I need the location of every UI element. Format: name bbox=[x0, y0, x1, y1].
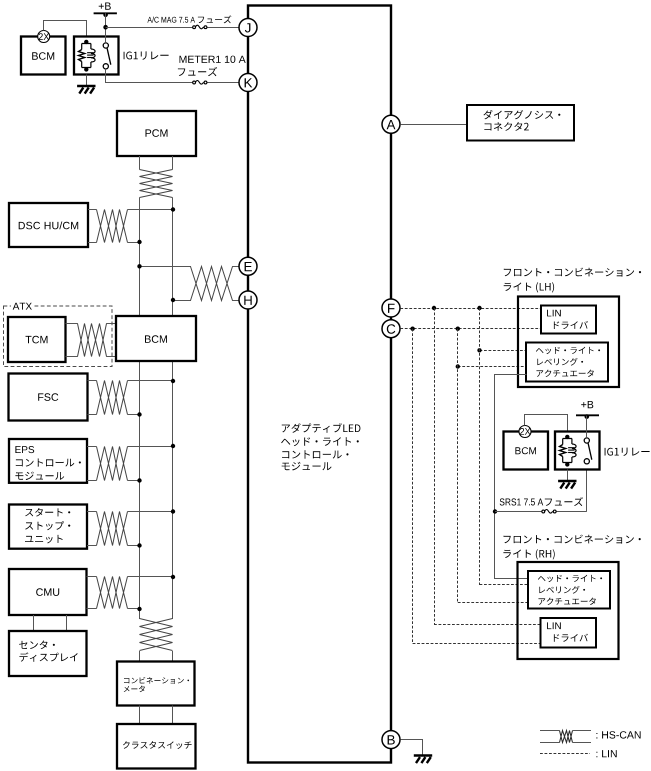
relay IG1 (right) box bbox=[555, 432, 600, 470]
twisted pair PCM (HS-CAN) bbox=[140, 170, 173, 198]
terminal C bbox=[382, 320, 400, 338]
relay IG1 coil and switch bbox=[82, 42, 91, 70]
twisted pair SSU (HS-CAN) bbox=[97, 512, 128, 546]
node junction C branch 1 bbox=[410, 327, 414, 331]
wire BCM 2X to IG1 relay coil bbox=[44, 21, 87, 42]
wire A to diagnosis connector bbox=[400, 124, 467, 126]
module center display bbox=[9, 631, 87, 676]
module EPS control module bbox=[9, 439, 87, 483]
wire twisted pair to BCM bbox=[106, 323, 116, 325]
module diagnosis connector 2 bbox=[467, 105, 574, 141]
module BCM (right) bbox=[504, 432, 549, 470]
node junction H branch bbox=[171, 298, 175, 302]
wire BCM 2X to IG1 relay coil (right) bbox=[525, 415, 568, 437]
wire combination meter to cluster switch bbox=[139, 706, 141, 725]
node junction F branch 2 bbox=[477, 306, 481, 310]
module DSC HU/CM bbox=[9, 203, 88, 247]
wire SSU CAN stubs bbox=[87, 511, 97, 513]
label METER1 10 A fuse bbox=[180, 56, 246, 63]
wire +B to relay switch bbox=[105, 13, 107, 43]
node junction DSC CAN-H bbox=[171, 207, 175, 211]
module LIN driver RH bbox=[541, 618, 597, 648]
wire relay to terminal J with fuse bbox=[106, 27, 193, 29]
terminal A bbox=[382, 115, 400, 133]
node junction SSU CAN-H bbox=[171, 509, 175, 513]
wire SRS1 fuse to IG1 relay bbox=[495, 511, 543, 513]
module BCM (top-left) bbox=[21, 37, 66, 75]
wire LIN C to LH LIN driver bbox=[400, 328, 541, 330]
twisted pair DSC (HS-CAN) bbox=[97, 210, 128, 243]
connector 2X on BCM right bbox=[519, 426, 531, 438]
wire PCM to bus twisted pair bbox=[139, 156, 141, 170]
fuse A/C MAG 7.5A bbox=[193, 26, 196, 29]
legend LIN symbol bbox=[540, 753, 590, 755]
wire SSU CAN-L to bus bbox=[128, 545, 140, 547]
terminal H bbox=[239, 291, 257, 309]
wire power to LH/RH leveling actuators bbox=[495, 375, 529, 579]
node junction EPS CAN-L bbox=[137, 478, 141, 482]
terminal E bbox=[239, 257, 257, 275]
wire LIN vertical to RH leveling lower bbox=[457, 329, 459, 602]
wire CMU CAN stubs bbox=[87, 576, 97, 578]
module combination meter bbox=[117, 662, 195, 706]
wire twisted pair to H bbox=[232, 300, 239, 302]
wire LIN F to LH LIN driver bbox=[400, 308, 541, 310]
wire EPS CAN stubs bbox=[87, 446, 97, 448]
wire DSC CAN-L to bus bbox=[128, 242, 140, 244]
relay IG1 (right) coil and switch bbox=[563, 437, 572, 465]
node junction SSU CAN-L bbox=[137, 543, 141, 547]
label A/C MAG 7.5 A fuse bbox=[147, 17, 195, 23]
wire FSC CAN stubs bbox=[88, 380, 97, 382]
legend label HS-CAN bbox=[596, 731, 640, 738]
module PCM bbox=[117, 111, 196, 156]
connector 2X on BCM bbox=[38, 31, 50, 43]
wire LIN vertical to RH leveling upper bbox=[479, 308, 481, 585]
wire bus to terminal H bbox=[173, 300, 191, 302]
terminal B bbox=[382, 731, 400, 749]
wire LIN to LH leveling actuator 1 bbox=[480, 350, 527, 352]
label ATX bbox=[13, 303, 32, 310]
twisted pair FSC (HS-CAN) bbox=[97, 381, 128, 415]
node junction DSC CAN-L bbox=[137, 240, 141, 244]
module BCM (gateway) bbox=[116, 316, 196, 361]
wire relay switch to terminal K with fuse bbox=[106, 69, 193, 83]
label adaptive LED headlight control module bbox=[282, 423, 361, 433]
ground (module B) bbox=[414, 754, 432, 756]
relay IG1 (top-left) box bbox=[74, 37, 119, 75]
module headlight leveling actuator RH bbox=[528, 571, 610, 609]
wire LIN vertical to RH LIN driver lower bbox=[412, 329, 414, 644]
node junction CMU CAN-H bbox=[171, 575, 175, 579]
wire +B to relay switch (right) bbox=[586, 416, 588, 438]
wire LIN vertical to RH LIN driver upper bbox=[434, 308, 436, 624]
wire TCM CAN stubs bbox=[66, 323, 78, 325]
legend label LIN bbox=[596, 750, 616, 757]
node junction +B branch to J bbox=[103, 25, 108, 30]
twisted pair to E/H (HS-CAN) bbox=[191, 267, 233, 301]
module CMU bbox=[9, 569, 87, 615]
power +B (top-left) bbox=[99, 3, 111, 10]
fuse SRS1 7.5A bbox=[542, 510, 545, 513]
ground (right relay) bbox=[567, 470, 569, 481]
fuse METER1 10A bbox=[193, 81, 196, 84]
label front combination light LH bbox=[504, 268, 641, 277]
terminal K bbox=[239, 74, 257, 92]
wire bus to terminal E bbox=[140, 266, 192, 268]
module cluster switch bbox=[117, 724, 196, 769]
wire HS-CAN bus right (CAN-H vertical) bbox=[172, 198, 174, 620]
module FSC bbox=[9, 374, 88, 421]
node junction SRS1 branch bbox=[493, 509, 497, 513]
module front combination light LH box bbox=[518, 297, 619, 388]
twisted pair CMU (HS-CAN) bbox=[97, 577, 128, 609]
module headlight leveling actuator LH bbox=[526, 343, 608, 382]
wire EPS CAN-H to bus bbox=[128, 446, 174, 448]
wire LIN to LH leveling actuator 2 bbox=[458, 366, 526, 368]
wire DSC CAN stubs bbox=[88, 209, 97, 211]
wire FSC CAN-L to bus bbox=[128, 414, 140, 416]
wire twisted pair to E bbox=[232, 266, 239, 268]
node junction LH leveling 1 bbox=[477, 348, 481, 352]
wire EPS CAN-L to bus bbox=[128, 480, 140, 482]
wire CMU CAN-H to bus bbox=[128, 576, 174, 578]
terminal J bbox=[239, 19, 257, 37]
module front combination light RH box bbox=[518, 562, 619, 659]
group ATX dashed box bbox=[4, 306, 113, 367]
wire twisted pair to combination meter bbox=[139, 651, 141, 662]
label SRS1 7.5 A fuse bbox=[500, 498, 544, 505]
node junction C branch 2 bbox=[456, 327, 460, 331]
wire CMU to center display bbox=[33, 615, 35, 631]
node junction EPS CAN-H bbox=[171, 444, 175, 448]
module start stop unit bbox=[9, 505, 87, 549]
node junction LH leveling 2 bbox=[456, 364, 460, 368]
label front combination light RH bbox=[504, 535, 641, 544]
node junction E branch bbox=[137, 264, 141, 268]
wire CMU CAN-L to bus bbox=[128, 608, 140, 610]
power +B (right) bbox=[581, 401, 593, 408]
wire HS-CAN bus left (CAN-L vertical) bbox=[139, 198, 141, 620]
wire FSC CAN-H to bus bbox=[128, 380, 174, 382]
legend HS-CAN symbol bbox=[540, 730, 560, 732]
label IG1 relay (right) bbox=[605, 448, 650, 456]
node junction F branch 1 bbox=[432, 306, 436, 310]
module LIN driver LH bbox=[541, 306, 596, 334]
module TCM bbox=[8, 317, 66, 362]
wire SSU CAN-H to bus bbox=[128, 511, 174, 513]
label IG1 relay (top-left) bbox=[124, 51, 169, 59]
node junction FSC CAN-L bbox=[137, 412, 141, 416]
module adaptive LED headlight control (big box) bbox=[248, 6, 391, 763]
wire DSC CAN-H to bus bbox=[128, 209, 174, 211]
node junction FSC CAN-H bbox=[171, 379, 175, 383]
twisted pair EPS (HS-CAN) bbox=[97, 447, 128, 481]
terminal F bbox=[382, 299, 400, 317]
ground (top-left relay) bbox=[86, 75, 88, 86]
wire B to ground bbox=[401, 740, 423, 756]
twisted pair bus to combination meter (HS-CAN) bbox=[140, 619, 173, 651]
node junction CMU CAN-L bbox=[137, 607, 141, 611]
twisted pair TCM-BCM (HS-CAN) bbox=[78, 324, 107, 357]
